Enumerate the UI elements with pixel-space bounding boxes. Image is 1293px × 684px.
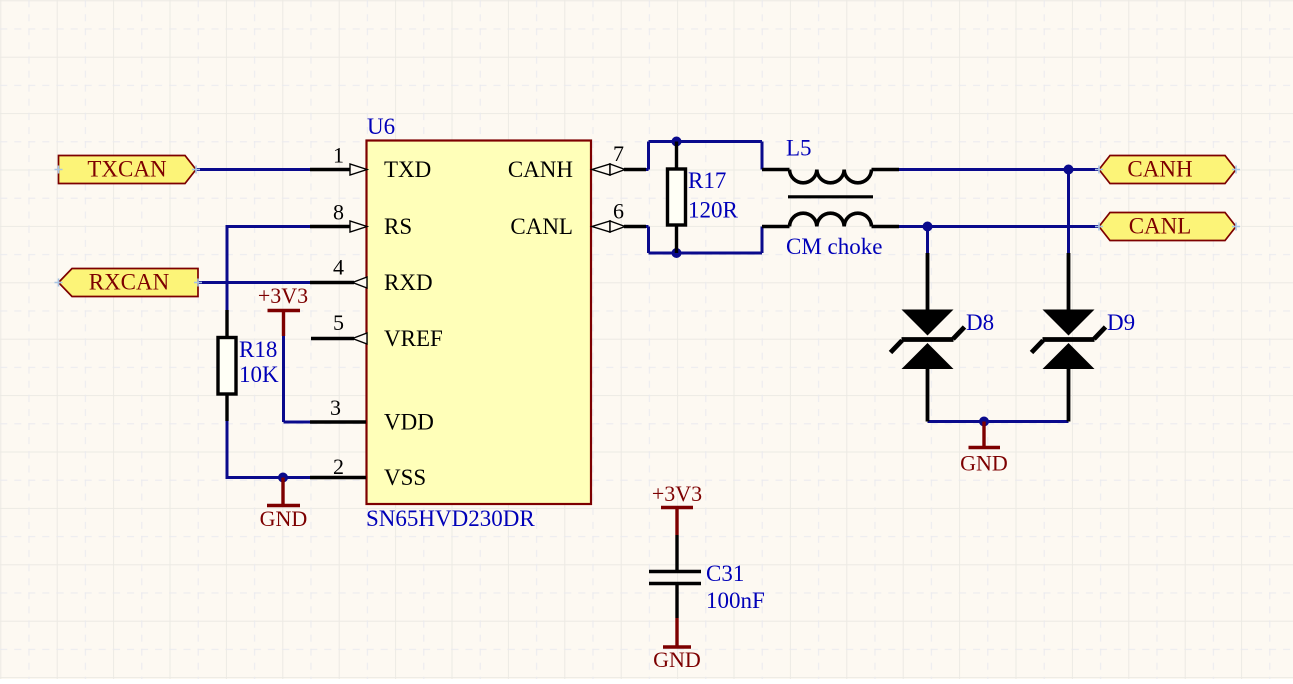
svg-text:L5: L5 xyxy=(786,136,812,161)
svg-text:U6: U6 xyxy=(367,114,395,139)
svg-text:RS: RS xyxy=(384,214,412,239)
svg-text:+3V3: +3V3 xyxy=(652,481,702,506)
svg-text:CM choke: CM choke xyxy=(786,234,882,259)
svg-text:100nF: 100nF xyxy=(706,588,765,613)
svg-text:7: 7 xyxy=(613,141,624,166)
svg-text:CANH: CANH xyxy=(508,157,573,182)
svg-text:CANL: CANL xyxy=(1129,214,1192,239)
svg-text:4: 4 xyxy=(333,255,344,280)
svg-text:1: 1 xyxy=(333,143,344,168)
svg-text:R17: R17 xyxy=(688,168,726,193)
svg-text:GND: GND xyxy=(960,451,1008,476)
svg-text:8: 8 xyxy=(333,200,344,225)
svg-text:120R: 120R xyxy=(688,198,739,223)
svg-text:VREF: VREF xyxy=(384,326,443,351)
svg-text:RXCAN: RXCAN xyxy=(89,270,170,295)
svg-text:3: 3 xyxy=(330,395,341,420)
svg-text:D8: D8 xyxy=(966,310,994,335)
svg-text:R18: R18 xyxy=(239,337,277,362)
svg-text:10K: 10K xyxy=(239,362,279,387)
svg-text:D9: D9 xyxy=(1107,310,1135,335)
svg-text:CANL: CANL xyxy=(510,214,573,239)
svg-text:GND: GND xyxy=(260,506,308,531)
svg-text:CANH: CANH xyxy=(1127,157,1192,182)
svg-text:6: 6 xyxy=(613,199,624,224)
svg-text:+3V3: +3V3 xyxy=(258,283,308,308)
svg-text:5: 5 xyxy=(333,310,344,335)
svg-text:VSS: VSS xyxy=(384,465,426,490)
svg-text:2: 2 xyxy=(333,454,344,479)
svg-text:RXD: RXD xyxy=(384,270,433,295)
svg-text:C31: C31 xyxy=(706,561,744,586)
svg-text:SN65HVD230DR: SN65HVD230DR xyxy=(366,506,535,531)
svg-text:VDD: VDD xyxy=(384,410,434,435)
svg-text:TXD: TXD xyxy=(384,157,431,182)
svg-text:TXCAN: TXCAN xyxy=(87,157,167,182)
svg-text:GND: GND xyxy=(653,647,701,672)
